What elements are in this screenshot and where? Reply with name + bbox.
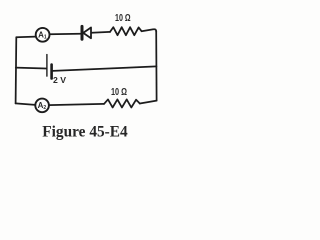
wire right edge (155, 31, 157, 101)
wire middle left (16, 67, 46, 70)
battery B1 long plate (46, 55, 48, 77)
wire top-left to A1 (16, 36, 35, 39)
wire R1 to top-right corner (142, 29, 157, 31)
resistor R2 (104, 99, 140, 107)
battery B1 short plate (50, 65, 53, 79)
wire bottom-left to A2 (16, 103, 36, 105)
diode D1 triangle (83, 28, 91, 39)
ammeter A1 (36, 28, 50, 42)
wire R2 to bottom-right corner (140, 101, 157, 104)
ammeter A2 (35, 99, 49, 113)
wire middle right (53, 66, 157, 71)
svg-text:10 Ω: 10 Ω (115, 13, 131, 24)
resistor R1 (110, 27, 142, 35)
diode D1 bar (81, 26, 84, 39)
wire A2 to R2 (49, 104, 104, 105)
wire left edge (15, 37, 18, 103)
wire A1 to diode (50, 33, 81, 36)
svg-text:Figure 45-E4: Figure 45-E4 (42, 123, 128, 140)
svg-text:10 Ω: 10 Ω (111, 87, 127, 98)
wire diode to R1 (92, 31, 111, 34)
svg-text:2 V: 2 V (53, 75, 66, 85)
